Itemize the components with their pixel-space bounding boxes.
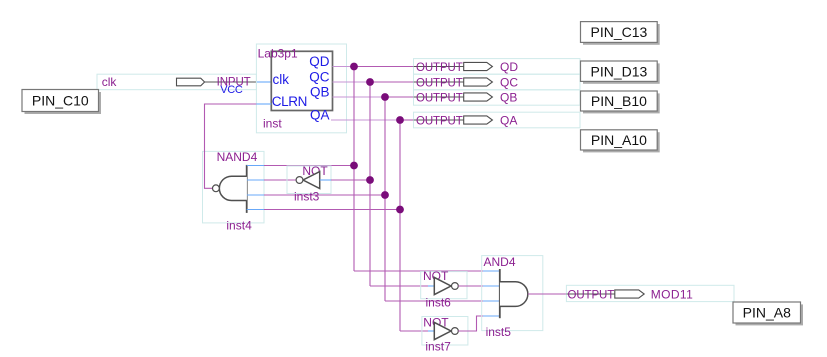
svg-text:inst7: inst7: [425, 339, 451, 353]
svg-text:OUTPUT: OUTPUT: [416, 78, 463, 90]
wire clk pin stub (blue): [256, 81, 271, 83]
svg-text:NAND4: NAND4: [217, 150, 258, 164]
NAND4 input stub 4 (blue): [247, 209, 264, 211]
junction node QA mid: [396, 206, 404, 214]
wire gray through OUTPUT QD text: [414, 66, 464, 68]
svg-text:inst6: inst6: [426, 295, 452, 309]
NOT inst3 selection box: [287, 166, 331, 194]
wire QC vertical to inst6 input: [370, 285, 428, 287]
wire QA port to node (light): [331, 119, 400, 121]
location box PIN_A8 shadow: [736, 304, 804, 325]
svg-text:PIN_A10: PIN_A10: [591, 132, 647, 148]
wire gray through OUTPUT QC text: [414, 81, 464, 83]
wire QA node to OUTPUT: [400, 119, 414, 121]
component inst Lab3p1 selection box: [256, 44, 346, 133]
input pin symbol flag: [177, 78, 205, 86]
NOT inst7 input stub (blue): [428, 330, 434, 332]
selection box OUTPUT QA: [414, 112, 581, 128]
svg-text:OUTPUT: OUTPUT: [416, 116, 463, 128]
wire QB vertical: [384, 97, 386, 301]
svg-text:inst3: inst3: [294, 190, 320, 204]
location box PIN_A8: [733, 302, 801, 323]
NOT inst7 triangle: [434, 322, 451, 339]
wire QC node to OUTPUT: [370, 81, 414, 83]
wire NAND input 1 to QD vertical: [264, 165, 354, 167]
NOT inst6 selection box: [421, 272, 467, 299]
svg-text:OUTPUT: OUTPUT: [416, 62, 463, 74]
wire QA vertical: [399, 120, 401, 331]
location box PIN_C10 shadow: [25, 92, 102, 114]
svg-text:inst4: inst4: [226, 219, 252, 233]
wire NAND input 3 to QB vertical: [264, 194, 385, 196]
location box PIN_D13 shadow: [583, 63, 660, 83]
svg-text:clk: clk: [102, 75, 118, 89]
svg-text:QB: QB: [310, 85, 330, 100]
location box PIN_C10: [22, 90, 99, 112]
selection box OUTPUT QC: [414, 74, 581, 90]
AND4 input stub 1 (blue): [483, 270, 500, 272]
output pin symbol flag QB: [464, 93, 493, 101]
NAND4 input stub 2 (blue): [247, 179, 264, 181]
svg-text:MOD11: MOD11: [651, 288, 693, 302]
component body rectangle: [271, 51, 332, 110]
svg-text:QB: QB: [500, 91, 517, 105]
svg-text:PIN_D13: PIN_D13: [590, 63, 647, 79]
wire QA vertical to inst7 input: [400, 330, 428, 332]
svg-text:inst5: inst5: [486, 325, 512, 339]
NAND4 selection box: [203, 151, 265, 223]
output pin symbol flag QA: [464, 116, 493, 124]
location box PIN_B10: [581, 91, 658, 111]
wire NAND input 4 to QA vertical: [264, 209, 400, 211]
AND4 gate input bar: [499, 269, 501, 318]
NOT inst3 bubble: [296, 177, 303, 184]
svg-text:PIN_A8: PIN_A8: [743, 305, 791, 321]
svg-text:inst: inst: [263, 117, 282, 131]
NAND4 input stub 3 (blue): [247, 194, 264, 196]
NOT inst6 bubble: [452, 283, 459, 290]
output pin symbol flag MOD11: [615, 290, 644, 298]
wire NAND output bubble to corner: [205, 104, 257, 188]
wire CLRN pin stub (blue): [256, 103, 271, 105]
wire QD port to node (light): [333, 66, 355, 68]
wire inst3 input to QC vertical: [331, 179, 370, 181]
NOT inst3 triangle (mirrored): [303, 172, 320, 189]
location box PIN_D13: [581, 61, 658, 81]
AND4 input stub 3 (blue): [483, 300, 500, 302]
junction node QD top: [350, 63, 358, 71]
NOT inst7 bubble: [452, 328, 459, 335]
svg-text:QD: QD: [500, 60, 518, 74]
junction node QC mid: [366, 176, 374, 184]
AND4 gate body: [500, 282, 528, 307]
svg-text:QD: QD: [309, 54, 330, 69]
NOT inst6 triangle: [434, 277, 451, 294]
junction node QC top: [366, 78, 374, 86]
NOT inst3 input stub (blue): [320, 179, 331, 181]
wire QB port to node (light): [333, 96, 386, 98]
selection box OUTPUT QB: [414, 90, 581, 105]
svg-text:QC: QC: [500, 76, 518, 90]
svg-text:PIN_B10: PIN_B10: [591, 93, 647, 109]
junction node QB top: [381, 93, 389, 101]
location box PIN_C13: [581, 22, 658, 43]
junction node QD mid: [350, 162, 358, 170]
wire QD vertical to AND input 1: [354, 270, 483, 272]
selection box OUTPUT QD: [414, 59, 581, 75]
wire QB vertical to AND input 3: [385, 300, 483, 302]
svg-text:Lab3p1: Lab3p1: [258, 47, 298, 61]
wire input pin to clk port (gray segment): [205, 81, 257, 83]
input pin clk selection box: [97, 74, 256, 90]
svg-text:OUTPUT: OUTPUT: [416, 93, 463, 105]
svg-text:QA: QA: [310, 108, 330, 123]
svg-text:QA: QA: [500, 114, 517, 128]
wire inst7 output jog to AND input 4: [458, 316, 483, 331]
svg-text:CLRN: CLRN: [272, 94, 307, 109]
wire AND4 output to OUTPUT MOD11: [528, 293, 567, 295]
NOT inst7 selection box: [422, 317, 468, 346]
wire gray through OUTPUT QA text: [414, 119, 464, 121]
junction node QB mid: [381, 191, 389, 199]
wire QD vertical: [353, 67, 355, 272]
location box PIN_A10 shadow: [583, 132, 660, 152]
wire QC vertical: [369, 82, 371, 286]
output pin symbol flag QC: [464, 78, 493, 86]
svg-text:PIN_C10: PIN_C10: [32, 93, 89, 109]
location box PIN_B10 shadow: [583, 93, 660, 113]
junction node QA top: [396, 116, 404, 124]
NAND4 gate input bar: [246, 165, 248, 213]
wire gray through OUTPUT QB text: [414, 96, 464, 98]
svg-text:QC: QC: [309, 70, 330, 85]
NOT inst6 input stub (blue): [428, 285, 434, 287]
wire QB node to OUTPUT: [385, 96, 414, 98]
output pin symbol flag QD: [464, 62, 493, 70]
svg-text:PIN_C13: PIN_C13: [590, 24, 647, 40]
wire inst6 output to AND input 2: [458, 285, 483, 287]
svg-text:AND4: AND4: [484, 255, 516, 269]
AND4 selection box: [482, 256, 543, 331]
wire NAND input 2 to inst3 output: [264, 179, 296, 181]
svg-text:clk: clk: [273, 72, 290, 87]
NAND4 gate body (mirrored): [219, 176, 247, 200]
OUTPUT MOD11 selection box: [566, 285, 734, 301]
location box PIN_C13 shadow: [583, 24, 660, 45]
wire gray through OUTPUT MOD11 text: [566, 293, 614, 295]
AND4 input stub 2 (blue): [483, 285, 500, 287]
wire QC port to node (light): [333, 81, 371, 83]
svg-text:OUTPUT: OUTPUT: [568, 289, 615, 301]
wire QD node to OUTPUT: [354, 66, 414, 68]
NAND4 output bubble: [213, 185, 220, 192]
svg-text:VCC: VCC: [220, 84, 243, 96]
NAND4 input stub 1 (blue): [247, 165, 264, 167]
location box PIN_A10: [581, 130, 658, 150]
AND4 input stub 4 (blue): [483, 315, 500, 317]
